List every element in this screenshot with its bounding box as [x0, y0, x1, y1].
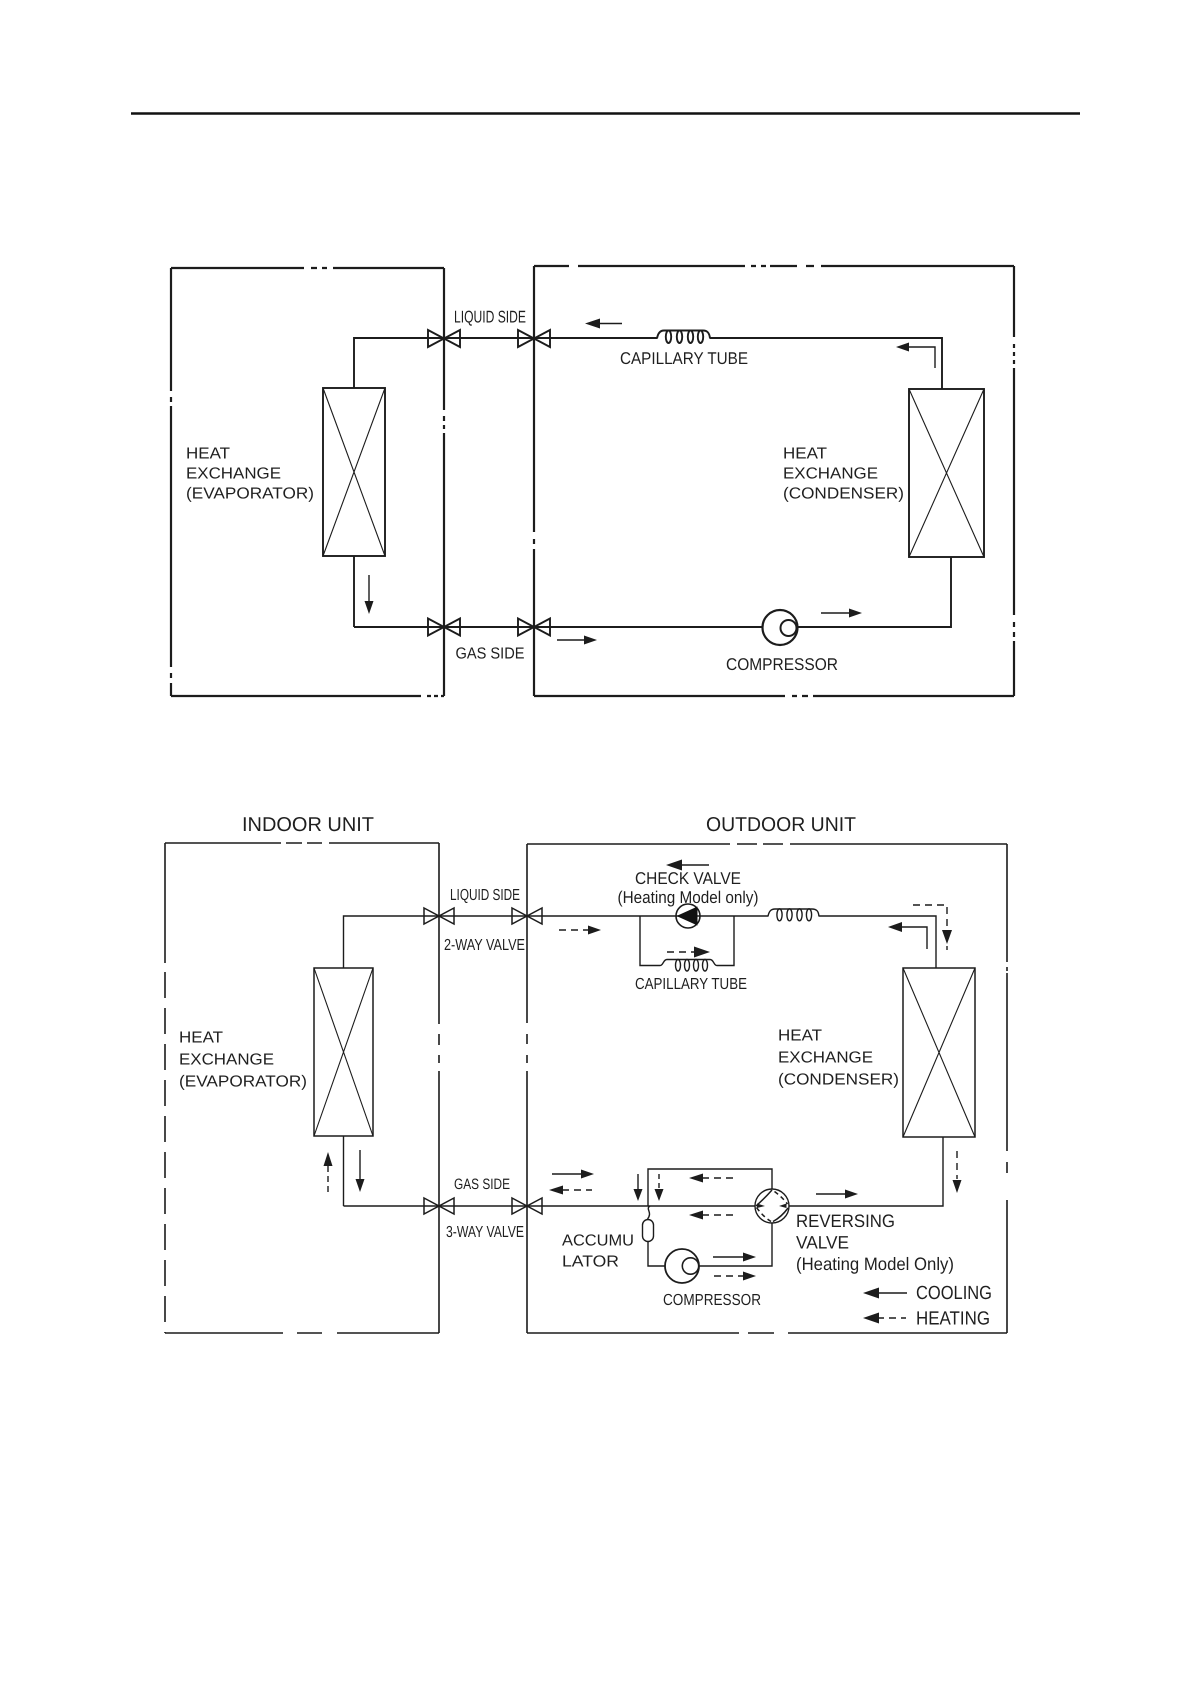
svg-text:EXCHANGE: EXCHANGE	[778, 1050, 873, 1067]
svg-text:LATOR: LATOR	[562, 1254, 619, 1271]
svg-text:(CONDENSER): (CONDENSER)	[778, 1072, 899, 1089]
svg-text:(EVAPORATOR): (EVAPORATOR)	[186, 486, 314, 503]
svg-text:VALVE: VALVE	[796, 1232, 849, 1252]
svg-text:COMPRESSOR: COMPRESSOR	[726, 655, 838, 674]
svg-text:GAS SIDE: GAS SIDE	[454, 1176, 510, 1193]
svg-text:ACCUMU: ACCUMU	[562, 1233, 634, 1250]
svg-text:OUTDOOR UNIT: OUTDOOR UNIT	[706, 814, 856, 836]
svg-text:(Heating Model Only): (Heating Model Only)	[796, 1254, 954, 1274]
svg-text:LIQUID SIDE: LIQUID SIDE	[450, 887, 520, 904]
svg-text:HEAT: HEAT	[783, 446, 827, 463]
svg-text:2-WAY VALVE: 2-WAY VALVE	[444, 937, 525, 954]
svg-text:HEATING: HEATING	[916, 1309, 990, 1330]
svg-text:INDOOR UNIT: INDOOR UNIT	[242, 814, 374, 836]
svg-text:(CONDENSER): (CONDENSER)	[783, 486, 904, 503]
svg-text:COMPRESSOR: COMPRESSOR	[663, 1292, 761, 1309]
svg-text:(EVAPORATOR): (EVAPORATOR)	[179, 1074, 307, 1091]
svg-text:CHECK VALVE: CHECK VALVE	[635, 869, 741, 888]
svg-text:HEAT: HEAT	[179, 1030, 223, 1047]
svg-text:EXCHANGE: EXCHANGE	[186, 466, 281, 483]
svg-text:CAPILLARY TUBE: CAPILLARY TUBE	[635, 976, 747, 993]
svg-text:3-WAY VALVE: 3-WAY VALVE	[446, 1224, 524, 1241]
svg-text:EXCHANGE: EXCHANGE	[179, 1052, 274, 1069]
svg-text:REVERSING: REVERSING	[796, 1211, 895, 1231]
svg-text:COOLING: COOLING	[916, 1283, 992, 1304]
svg-text:CAPILLARY TUBE: CAPILLARY TUBE	[620, 349, 748, 368]
svg-text:HEAT: HEAT	[778, 1028, 822, 1045]
svg-text:EXCHANGE: EXCHANGE	[783, 466, 878, 483]
svg-text:HEAT: HEAT	[186, 446, 230, 463]
svg-text:LIQUID SIDE: LIQUID SIDE	[454, 308, 526, 327]
svg-text:GAS SIDE: GAS SIDE	[456, 646, 525, 663]
svg-text:(Heating Model only): (Heating Model only)	[618, 888, 759, 907]
